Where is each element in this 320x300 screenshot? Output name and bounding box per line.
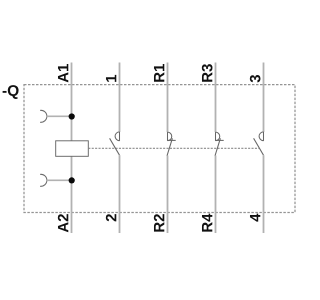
NO contact 3-4 moving contact xyxy=(254,138,264,155)
device tag -Q xyxy=(3,91,7,93)
wire R4 lower segment xyxy=(215,156,217,234)
wire A2 lower segment xyxy=(71,156,73,233)
NO contact 3-4 fixed contact stem xyxy=(263,132,265,141)
NC contact R3-R4 moving contact xyxy=(215,138,220,156)
NO contact 3-4 fixed contact arc xyxy=(259,132,263,141)
NC contact R3-R4 stop bar xyxy=(216,139,224,141)
wire 2 lower segment xyxy=(119,155,121,233)
wire 1 upper segment xyxy=(119,63,121,133)
NC contact R1-R2 moving contact xyxy=(167,138,172,156)
NO contact 1-2 fixed contact stem xyxy=(119,132,121,141)
wire R3 upper segment xyxy=(215,63,217,133)
wire hook to A1 xyxy=(47,115,72,117)
terminal label A1 xyxy=(58,72,68,82)
wire 4 lower segment xyxy=(263,155,265,233)
terminal label 2 xyxy=(106,214,116,221)
NC contact R1-R2 fixed contact stem xyxy=(167,132,169,141)
terminal label R4 xyxy=(202,222,212,232)
mechanical linkage dashed line xyxy=(88,147,259,149)
wire R1 upper segment xyxy=(167,63,169,133)
junction dot A2 xyxy=(69,177,75,183)
NO contact 1-2 moving contact xyxy=(110,138,120,155)
terminal label R3 xyxy=(202,72,212,82)
NC contact R3-R4 fixed contact arc xyxy=(216,132,220,141)
terminal label 3 xyxy=(250,75,261,82)
wire hook to A2 xyxy=(47,179,72,181)
terminal label R2 xyxy=(154,222,164,232)
NC contact R1-R2 fixed contact arc xyxy=(168,132,172,141)
wire 3 upper segment xyxy=(263,63,265,133)
plug-in connection hook bottom (A2) xyxy=(40,174,47,186)
plug-in connection hook top (A1) xyxy=(40,110,47,122)
junction dot A1 xyxy=(69,113,75,119)
NC contact R3-R4 fixed contact stem xyxy=(215,132,217,141)
coil Q operating coil xyxy=(56,141,89,157)
wire A1 upper segment xyxy=(71,63,73,141)
terminal label 4 xyxy=(250,214,260,222)
terminal label A2 xyxy=(58,222,68,232)
terminal label R1 xyxy=(154,72,164,82)
NC contact R1-R2 stop bar xyxy=(168,139,176,141)
terminal label 1 xyxy=(106,75,116,82)
wire R2 lower segment xyxy=(167,156,169,234)
NO contact 1-2 fixed contact arc xyxy=(115,132,119,141)
enclosure dashed boundary xyxy=(24,85,295,213)
